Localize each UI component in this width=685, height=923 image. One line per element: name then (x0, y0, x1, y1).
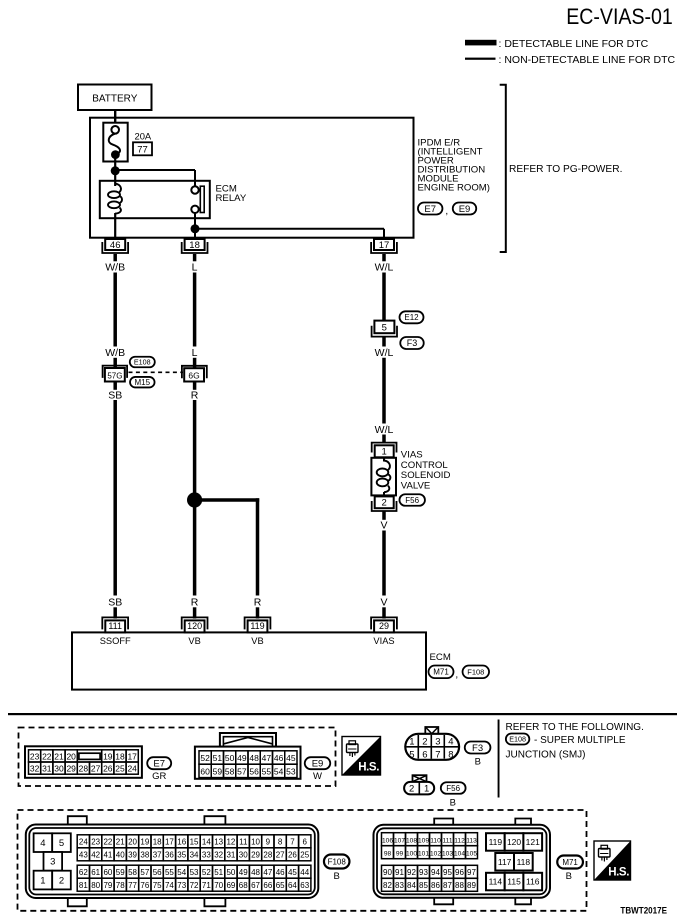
svg-text:47: 47 (263, 868, 272, 877)
svg-text:6: 6 (303, 838, 308, 847)
svg-text:60: 60 (200, 766, 210, 776)
svg-text:SSOFF: SSOFF (100, 636, 131, 646)
legend non-detectable line (465, 54, 675, 66)
svg-text:18: 18 (115, 751, 125, 761)
svg-text:16: 16 (177, 838, 186, 847)
svg-text:REFER TO PG-POWER.: REFER TO PG-POWER. (509, 164, 622, 175)
connector F56 housing (404, 775, 434, 794)
svg-text:W/L: W/L (375, 261, 394, 273)
svg-text:32: 32 (214, 851, 223, 860)
label L (192, 261, 198, 273)
svg-text:47: 47 (262, 753, 272, 763)
connector ref F108 oval bottom (324, 855, 350, 869)
svg-text:V: V (380, 596, 387, 608)
svg-text:20A: 20A (135, 131, 152, 142)
svg-text:73: 73 (177, 881, 186, 890)
connector ref M71 oval bottom (557, 856, 583, 869)
connector ref F3 oval bottom (465, 742, 491, 754)
label R 3 (254, 596, 262, 608)
svg-text:105: 105 (466, 851, 477, 858)
bracket refer to pg-power (500, 85, 506, 252)
label GR (152, 771, 166, 782)
svg-text:H.S.: H.S. (608, 867, 629, 879)
svg-text:VB: VB (188, 636, 200, 646)
svg-text:103: 103 (442, 851, 453, 858)
svg-text:B: B (450, 797, 456, 808)
svg-text:12: 12 (226, 838, 235, 847)
svg-text:51: 51 (213, 753, 223, 763)
svg-text:2: 2 (409, 783, 414, 794)
svg-text:W: W (313, 771, 322, 782)
label B m71 (566, 871, 572, 882)
comma 2 (455, 670, 458, 681)
svg-text:42: 42 (91, 851, 100, 860)
svg-text:1: 1 (424, 783, 429, 794)
svg-text:62: 62 (79, 868, 88, 877)
wire L to SMJ (193, 358, 197, 368)
svg-text:53: 53 (286, 766, 296, 776)
svg-text:R: R (191, 390, 199, 402)
terminal 2 solenoid (372, 496, 397, 511)
connector ref F56 oval mid (399, 494, 425, 506)
svg-text:27: 27 (276, 851, 285, 860)
wire junction down to relay coil (114, 171, 116, 186)
terminal 46 (102, 239, 128, 253)
connector F3 housing (405, 727, 459, 760)
label V (380, 520, 387, 532)
label SB (108, 390, 122, 402)
label B f56 (450, 797, 456, 808)
svg-text:65: 65 (276, 881, 285, 890)
svg-text:: DETECTABLE LINE FOR DTC: : DETECTABLE LINE FOR DTC (499, 38, 649, 50)
wire SB down (113, 382, 117, 596)
pin label SSOFF (100, 636, 131, 646)
terminal 18 (182, 239, 208, 253)
label B f108 (334, 871, 340, 882)
legend detectable line (465, 38, 649, 50)
VIAS control solenoid valve body (371, 458, 396, 497)
svg-text:118: 118 (517, 857, 531, 867)
svg-text:114: 114 (489, 877, 503, 887)
svg-text:109: 109 (418, 838, 429, 845)
wire W/B down (113, 273, 117, 347)
svg-text:61: 61 (91, 868, 100, 877)
wire W/L down to SMJ 5 (382, 273, 386, 322)
svg-text:17: 17 (127, 751, 137, 761)
svg-text:VIAS: VIAS (373, 636, 394, 646)
svg-text:15: 15 (190, 838, 199, 847)
svg-text:44: 44 (300, 868, 309, 877)
svg-text:21: 21 (54, 751, 64, 761)
svg-text:48: 48 (249, 753, 259, 763)
ECM box (72, 632, 426, 689)
svg-text:34: 34 (190, 851, 199, 860)
svg-text:2: 2 (59, 875, 64, 886)
svg-text:115: 115 (507, 877, 521, 887)
svg-text:W/B: W/B (105, 261, 125, 273)
connector F3 pin grid (406, 735, 458, 761)
svg-text:F56: F56 (405, 496, 419, 505)
svg-text:21: 21 (116, 838, 125, 847)
svg-text:E12: E12 (404, 313, 419, 322)
svg-text:27: 27 (91, 764, 101, 774)
svg-text:99: 99 (396, 851, 404, 858)
svg-text:14: 14 (202, 838, 211, 847)
svg-text:67: 67 (251, 881, 260, 890)
junction dot below fuse (111, 166, 120, 175)
svg-text:50: 50 (226, 868, 235, 877)
svg-text:5: 5 (59, 838, 64, 849)
svg-text:52: 52 (200, 753, 210, 763)
svg-text:59: 59 (116, 868, 125, 877)
svg-text:SB: SB (108, 596, 122, 608)
H.S. symbol top (342, 737, 381, 776)
svg-text:96: 96 (455, 868, 464, 877)
terminal 29 (371, 617, 397, 632)
svg-text:7: 7 (290, 838, 295, 847)
svg-text:18: 18 (153, 838, 162, 847)
svg-text:38: 38 (140, 851, 149, 860)
svg-text:13: 13 (214, 838, 223, 847)
svg-text:22: 22 (103, 838, 112, 847)
svg-text:V: V (380, 520, 387, 532)
wire R down (193, 382, 197, 596)
label V 2 (380, 596, 387, 608)
wire fuse to junction (114, 157, 116, 171)
label W/B (105, 261, 125, 273)
svg-text:28: 28 (79, 764, 89, 774)
wire R branch down (256, 498, 260, 595)
svg-text:19: 19 (140, 838, 149, 847)
wire W/L down (382, 337, 386, 424)
svg-text:56: 56 (153, 868, 162, 877)
svg-text:1: 1 (382, 447, 387, 458)
svg-text:111: 111 (108, 621, 122, 631)
vertical divider line (498, 720, 500, 798)
svg-text:GR: GR (152, 771, 166, 782)
connector F108 pin grid (77, 835, 311, 891)
svg-text:33: 33 (202, 851, 211, 860)
svg-text:JUNCTION (SMJ): JUNCTION (SMJ) (506, 749, 586, 760)
dashed SMJ link (129, 371, 184, 373)
connector M71 pin grid right (486, 833, 542, 890)
svg-text:H.S.: H.S. (358, 762, 379, 774)
pin label VB 2 (251, 636, 263, 646)
svg-text:49: 49 (237, 753, 247, 763)
svg-text:8: 8 (448, 749, 453, 760)
label W/L (375, 261, 394, 273)
relay coil (108, 184, 122, 214)
svg-text:60: 60 (103, 868, 112, 877)
junction dot R branch (187, 492, 202, 507)
svg-text:113: 113 (466, 838, 477, 845)
svg-text:74: 74 (165, 881, 174, 890)
svg-text:72: 72 (190, 881, 199, 890)
svg-text:68: 68 (239, 881, 248, 890)
label W/L 2 (375, 347, 394, 359)
svg-text:57G: 57G (107, 371, 122, 380)
svg-text:117: 117 (498, 857, 512, 867)
svg-text:78: 78 (116, 881, 125, 890)
svg-text:24: 24 (79, 838, 88, 847)
svg-text:46: 46 (274, 753, 284, 763)
svg-text:17: 17 (165, 838, 174, 847)
svg-text:54: 54 (274, 766, 284, 776)
junction dot relay output (191, 224, 200, 233)
svg-text:30: 30 (239, 851, 248, 860)
svg-text:86: 86 (431, 881, 440, 890)
label IPDM E/R description (418, 137, 491, 193)
SMJ terminal 6G (182, 366, 207, 382)
label ECM (430, 652, 451, 663)
connector ref E9 oval bottom (305, 757, 331, 769)
svg-text:46: 46 (110, 240, 121, 251)
svg-text:3: 3 (50, 857, 55, 868)
label JUNCTION SMJ (506, 749, 586, 760)
svg-text:39: 39 (128, 851, 137, 860)
svg-text:104: 104 (454, 851, 465, 858)
svg-text:106: 106 (382, 838, 393, 845)
svg-text:ECM: ECM (430, 652, 451, 663)
svg-text:20: 20 (66, 751, 76, 761)
terminal 119 (245, 617, 271, 632)
svg-text:11: 11 (239, 838, 248, 847)
connector M71 housing (374, 819, 551, 905)
svg-text:55: 55 (262, 766, 272, 776)
dashed box connectors bottom (18, 810, 587, 911)
connector M71 pin grid left (382, 833, 478, 892)
svg-text:85: 85 (419, 881, 428, 890)
value label 20A (135, 131, 152, 142)
svg-text:L: L (192, 347, 198, 359)
svg-text:6: 6 (422, 749, 427, 760)
label W/L 3 (375, 424, 394, 436)
svg-text:83: 83 (395, 881, 404, 890)
connector ref F108 oval ecm (463, 666, 490, 679)
svg-text:58: 58 (128, 868, 137, 877)
connector ref E108 oval bottom (506, 734, 529, 745)
svg-text:26: 26 (288, 851, 297, 860)
wire W/B to SMJ (113, 358, 117, 368)
svg-text:: NON-DETECTABLE LINE FOR DTC: : NON-DETECTABLE LINE FOR DTC (499, 54, 676, 66)
connector ref M15 oval (130, 377, 155, 388)
svg-text:107: 107 (394, 838, 405, 845)
svg-text:F56: F56 (446, 784, 460, 793)
svg-text:120: 120 (507, 837, 521, 847)
wire L down (193, 273, 197, 347)
svg-text:8: 8 (278, 838, 283, 847)
svg-text:116: 116 (526, 877, 540, 887)
connector ref F3 oval mid (400, 337, 424, 349)
label TBWT2017E (620, 905, 667, 916)
separator line (8, 713, 677, 715)
svg-text:75: 75 (153, 881, 162, 890)
svg-text:29: 29 (251, 851, 260, 860)
svg-text:37: 37 (153, 851, 162, 860)
svg-text:W/B: W/B (105, 347, 125, 359)
terminal 111 (102, 617, 128, 632)
svg-text:- SUPER MULTIPLE: - SUPER MULTIPLE (534, 735, 626, 746)
svg-text:36: 36 (165, 851, 174, 860)
svg-text:F108: F108 (467, 668, 484, 677)
svg-text:63: 63 (300, 881, 309, 890)
svg-text:4: 4 (448, 737, 453, 748)
svg-text:E9: E9 (459, 204, 471, 215)
svg-text:77: 77 (128, 881, 137, 890)
title EC-VIAS-01 (566, 5, 673, 30)
svg-text:VALVE: VALVE (401, 480, 431, 491)
wire R branch horizontal (195, 498, 260, 502)
label W (313, 771, 322, 782)
label R (191, 390, 199, 402)
connector ref E12 oval (400, 311, 424, 323)
svg-text:112: 112 (454, 838, 465, 845)
svg-text:25: 25 (300, 851, 309, 860)
svg-text:F3: F3 (472, 743, 483, 754)
svg-text:22: 22 (42, 751, 52, 761)
svg-text:28: 28 (263, 851, 272, 860)
svg-text:64: 64 (288, 881, 297, 890)
svg-text:24: 24 (127, 764, 137, 774)
wire branch to terminal 17 (195, 229, 384, 239)
svg-text:R: R (191, 596, 199, 608)
svg-text:81: 81 (79, 881, 88, 890)
svg-text:71: 71 (202, 881, 211, 890)
connector E7 housing (25, 746, 142, 778)
terminal 1 solenoid (372, 443, 397, 458)
svg-text:111: 111 (442, 838, 452, 845)
svg-text:31: 31 (226, 851, 235, 860)
wire stubs to ECM (115, 607, 384, 618)
label REFER TO THE FOLLOWING (506, 722, 644, 733)
svg-text:100: 100 (406, 851, 417, 858)
svg-text:92: 92 (407, 868, 416, 877)
svg-text:5: 5 (382, 323, 387, 334)
svg-text:76: 76 (140, 881, 149, 890)
svg-text:80: 80 (91, 881, 100, 890)
svg-text:29: 29 (379, 621, 389, 631)
svg-text:9: 9 (266, 838, 271, 847)
svg-text:17: 17 (379, 240, 390, 251)
svg-text:ENGINE ROOM): ENGINE ROOM) (418, 183, 491, 194)
relay contacts (191, 186, 204, 213)
wire W/L to solenoid (382, 435, 386, 444)
svg-text:10: 10 (251, 838, 260, 847)
svg-text:2: 2 (422, 737, 427, 748)
svg-text:59: 59 (213, 766, 223, 776)
svg-text:BATTERY: BATTERY (92, 93, 138, 104)
svg-text:56: 56 (249, 766, 259, 776)
label W/B 2 (105, 347, 125, 359)
svg-text:,: , (445, 206, 448, 217)
comma separator (445, 206, 448, 217)
svg-text:RELAY: RELAY (216, 193, 247, 204)
svg-text:4: 4 (40, 838, 45, 849)
svg-text:40: 40 (116, 851, 125, 860)
terminal 120 (182, 617, 208, 632)
label SB 2 (108, 596, 122, 608)
svg-text:REFER TO THE FOLLOWING.: REFER TO THE FOLLOWING. (506, 722, 644, 733)
svg-text:77: 77 (137, 144, 148, 155)
svg-text:94: 94 (431, 868, 440, 877)
svg-text:54: 54 (177, 868, 186, 877)
svg-text:M15: M15 (135, 378, 151, 387)
svg-text:48: 48 (251, 868, 260, 877)
label R 2 (191, 596, 199, 608)
svg-text:66: 66 (263, 881, 272, 890)
svg-text:89: 89 (467, 881, 476, 890)
svg-text:E9: E9 (312, 759, 324, 770)
svg-text:E7: E7 (424, 204, 436, 215)
svg-text:121: 121 (526, 837, 540, 847)
connector ref E7 oval bottom (147, 757, 171, 769)
svg-text:91: 91 (395, 868, 404, 877)
connector ref E9 oval (453, 203, 477, 215)
svg-text:,: , (455, 670, 458, 681)
svg-text:E108: E108 (134, 358, 151, 367)
wire coil to terminal 46 (114, 213, 116, 239)
svg-text:87: 87 (443, 881, 452, 890)
svg-text:M71: M71 (433, 668, 449, 677)
svg-text:B: B (566, 871, 572, 882)
svg-text:101: 101 (418, 851, 429, 858)
wire W/B from terminal 46 (113, 254, 117, 261)
svg-text:69: 69 (226, 881, 235, 890)
svg-text:W/L: W/L (375, 424, 394, 436)
connector ref E108 oval (130, 357, 155, 368)
svg-text:E7: E7 (153, 759, 165, 770)
pin label VB (188, 636, 200, 646)
svg-text:88: 88 (455, 881, 464, 890)
svg-text:L: L (192, 261, 198, 273)
svg-text:19: 19 (103, 751, 113, 761)
H.S. symbol bottom (594, 841, 631, 880)
label B f3 (475, 756, 481, 767)
svg-text:58: 58 (225, 766, 235, 776)
svg-text:F108: F108 (328, 857, 347, 866)
svg-text:3: 3 (435, 737, 440, 748)
svg-text:84: 84 (407, 881, 416, 890)
svg-text:119: 119 (489, 837, 503, 847)
relay ECM RELAY box (100, 181, 210, 218)
svg-text:32: 32 (30, 764, 40, 774)
svg-text:B: B (334, 871, 340, 882)
svg-text:70: 70 (214, 881, 223, 890)
svg-text:B: B (475, 756, 481, 767)
svg-text:93: 93 (419, 868, 428, 877)
connector F108 housing (26, 816, 319, 906)
svg-text:57: 57 (237, 766, 247, 776)
SMJ terminal 57G (103, 366, 128, 382)
svg-text:46: 46 (276, 868, 285, 877)
svg-text:119: 119 (250, 621, 264, 631)
svg-text:51: 51 (214, 868, 223, 877)
svg-text:23: 23 (91, 838, 100, 847)
label VIAS CONTROL SOLENOID VALVE (401, 450, 451, 492)
connector E7 pin grid (29, 750, 139, 774)
svg-text:6G: 6G (188, 370, 199, 380)
svg-text:30: 30 (54, 764, 64, 774)
connector ref E7 oval (418, 203, 443, 215)
svg-text:45: 45 (288, 868, 297, 877)
svg-text:45: 45 (286, 753, 296, 763)
svg-text:31: 31 (42, 764, 52, 774)
connector F108 key pins 1-5 (34, 833, 71, 889)
svg-text:102: 102 (430, 851, 441, 858)
svg-text:43: 43 (79, 851, 88, 860)
svg-text:57: 57 (140, 868, 149, 877)
dashed box connectors top (19, 728, 336, 787)
